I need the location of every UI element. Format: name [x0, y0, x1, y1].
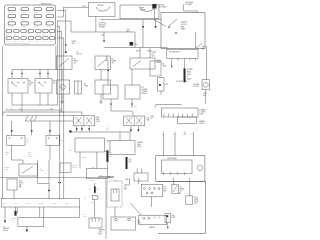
svg-text:MED HI: MED HI — [187, 79, 192, 81]
svg-text:S208: S208 — [72, 43, 75, 45]
svg-text:NOID: NOID — [99, 234, 102, 236]
svg-text:HTR: HTR — [26, 139, 29, 141]
svg-text:FUS: FUS — [21, 41, 24, 43]
svg-text:ORN: ORN — [61, 139, 64, 141]
svg-text:CLK FU: CLK FU — [8, 26, 13, 28]
svg-text:COIL: COIL — [124, 187, 127, 189]
svg-text:TERY: TERY — [138, 223, 142, 225]
svg-text:LINK: LINK — [11, 220, 14, 222]
svg-text:S201: S201 — [5, 153, 8, 155]
svg-text:SWITCH: SWITCH — [199, 123, 204, 125]
svg-text:LINK: LINK — [129, 161, 132, 163]
svg-text:BLOWER: BLOWER — [4, 167, 10, 169]
svg-text:CLK FU: CLK FU — [8, 12, 13, 14]
svg-text:IGNITION: IGNITION — [181, 22, 187, 24]
svg-text:RLY: RLY — [29, 85, 32, 87]
svg-text:CLK FU: CLK FU — [34, 12, 39, 14]
svg-text:MODULE: MODULE — [142, 93, 148, 95]
svg-text:PPL: PPL — [107, 128, 110, 130]
svg-text:FUS: FUS — [36, 34, 39, 36]
svg-text:FUSIBLE: FUSIBLE — [11, 218, 16, 220]
svg-text:S300: S300 — [165, 84, 168, 86]
svg-text:FUEL: FUEL — [194, 197, 198, 199]
svg-text:SOLE-: SOLE- — [99, 232, 103, 234]
svg-text:THERM: THERM — [112, 61, 117, 63]
svg-text:SEE: SEE — [28, 152, 31, 154]
svg-text:BRN: BRN — [124, 189, 127, 191]
svg-text:BLOWER SWITCH: BLOWER SWITCH — [169, 52, 181, 54]
svg-text:20 BRN: 20 BRN — [72, 41, 77, 43]
svg-text:CLK FU: CLK FU — [34, 26, 39, 28]
svg-text:FUS: FUS — [28, 34, 31, 36]
svg-text:BRN: BRN — [163, 191, 166, 193]
svg-text:2 RED: 2 RED — [65, 203, 69, 205]
svg-text:18 BLK: 18 BLK — [26, 203, 30, 205]
svg-text:BLOWER: BLOWER — [142, 89, 148, 91]
svg-text:FUS: FUS — [49, 34, 52, 36]
svg-text:8-CYL: 8-CYL — [163, 189, 167, 191]
svg-text:BULK-: BULK- — [96, 117, 100, 119]
svg-text:GRY: GRY — [15, 203, 18, 205]
svg-text:HTR: HTR — [53, 81, 56, 83]
svg-text:DIMMER: DIMMER — [199, 121, 204, 123]
svg-text:C100: C100 — [127, 29, 130, 31]
svg-text:BLOWER: BLOWER — [194, 84, 200, 86]
svg-text:OIL: OIL — [180, 187, 182, 189]
svg-text:250: 250 — [152, 54, 154, 56]
svg-text:PPL RED: PPL RED — [38, 203, 43, 205]
svg-text:S110: S110 — [94, 183, 97, 185]
svg-text:CONTROL: CONTROL — [142, 91, 149, 93]
svg-text:S207: S207 — [83, 6, 86, 8]
svg-text:HOT IN RUN: HOT IN RUN — [99, 23, 107, 25]
svg-text:GRN: GRN — [183, 134, 186, 136]
svg-text:REGU-: REGU- — [137, 144, 142, 146]
svg-text:250: 250 — [107, 130, 109, 132]
svg-text:PNK: PNK — [202, 46, 205, 48]
svg-text:GRY: GRY — [194, 203, 197, 205]
svg-text:MOTOR: MOTOR — [194, 86, 199, 88]
svg-text:PUMP: PUMP — [172, 217, 176, 219]
svg-text:RLY: RLY — [53, 83, 56, 85]
svg-text:CLK FU: CLK FU — [46, 19, 51, 21]
svg-text:JUNC: JUNC — [19, 181, 23, 183]
svg-text:TORS: TORS — [187, 74, 191, 76]
svg-text:20 BLK: 20 BLK — [5, 152, 9, 154]
svg-text:LINK: LINK — [96, 190, 99, 192]
svg-text:FUS: FUS — [43, 34, 46, 36]
svg-text:FUS: FUS — [43, 41, 46, 43]
svg-text:FUS: FUS — [21, 34, 24, 36]
svg-text:PRESS: PRESS — [180, 189, 185, 191]
svg-text:SWITCH: SWITCH — [4, 168, 9, 170]
svg-text:2 BLK: 2 BLK — [91, 201, 94, 203]
svg-text:BLK: BLK — [89, 189, 91, 191]
svg-text:FUS: FUS — [14, 34, 17, 36]
svg-text:BRN: BRN — [126, 179, 129, 181]
svg-text:CONN: CONN — [199, 114, 203, 116]
svg-text:FUS: FUS — [28, 41, 31, 43]
svg-text:C210: C210 — [50, 108, 53, 110]
svg-text:S115: S115 — [98, 196, 101, 198]
svg-text:C100: C100 — [100, 175, 103, 177]
svg-text:RESIS-: RESIS- — [187, 71, 192, 73]
svg-text:LO: LO — [187, 76, 189, 78]
svg-text:CTRL: CTRL — [26, 141, 30, 143]
svg-text:BLOCK: BLOCK — [28, 155, 32, 157]
svg-text:C100: C100 — [108, 176, 111, 178]
svg-text:COMP: COMP — [29, 83, 33, 85]
svg-text:FUS: FUS — [14, 41, 17, 43]
svg-text:SIG: SIG — [150, 118, 152, 120]
svg-text:SWITCH: SWITCH — [181, 24, 187, 26]
svg-text:FUS: FUS — [96, 188, 99, 190]
svg-text:SWITCH: SWITCH — [140, 9, 145, 11]
svg-text:BLOWER: BLOWER — [187, 69, 193, 71]
svg-text:FUS: FUS — [49, 41, 52, 43]
svg-text:RED: RED — [109, 156, 112, 158]
svg-text:RUN: RUN — [181, 26, 184, 28]
svg-text:TO FUSE: TO FUSE — [72, 164, 78, 166]
svg-text:FUS: FUS — [129, 159, 132, 161]
svg-text:CLK FU: CLK FU — [21, 26, 26, 28]
svg-text:WPR MTR: WPR MTR — [98, 5, 104, 7]
svg-text:COMP: COMP — [84, 86, 88, 88]
svg-text:CLK FU: CLK FU — [8, 19, 13, 21]
svg-text:BLK: BLK — [84, 198, 86, 200]
svg-text:CONN: CONN — [146, 120, 150, 122]
svg-text:12 BLK: 12 BLK — [82, 157, 86, 159]
svg-text:STEERING: STEERING — [199, 110, 206, 112]
svg-text:DIST: DIST — [163, 187, 166, 189]
svg-text:S135: S135 — [92, 167, 95, 169]
svg-text:FUSE BLOCK: FUSE BLOCK — [41, 3, 52, 5]
svg-text:PUMP: PUMP — [194, 199, 198, 201]
svg-text:PRESS: PRESS — [74, 61, 79, 63]
svg-text:BLK: BLK — [3, 203, 6, 205]
svg-text:RED: RED — [98, 198, 101, 200]
svg-text:12 GRY: 12 GRY — [52, 203, 57, 205]
svg-text:HI BLO: HI BLO — [157, 60, 161, 62]
svg-text:C220: C220 — [152, 56, 155, 58]
svg-text:CLK FU: CLK FU — [21, 19, 26, 21]
svg-text:BLOCK: BLOCK — [19, 183, 24, 185]
svg-text:MOTOR: MOTOR — [3, 230, 8, 232]
svg-text:ORN: ORN — [134, 106, 137, 108]
svg-text:CLK FU: CLK FU — [21, 12, 26, 14]
svg-text:CLK FU: CLK FU — [34, 19, 39, 21]
svg-text:WIPER: WIPER — [140, 8, 144, 10]
svg-text:C250: C250 — [204, 93, 207, 95]
svg-text:C200: C200 — [146, 118, 149, 120]
svg-text:BLU: BLU — [106, 57, 109, 59]
svg-text:COLUMN: COLUMN — [199, 112, 205, 114]
svg-text:FUSE: FUSE — [28, 153, 32, 155]
svg-text:FUS: FUS — [109, 152, 112, 154]
svg-text:TO: TO — [3, 226, 5, 228]
svg-text:CONN: CONN — [96, 121, 100, 123]
svg-text:GEN: GEN — [107, 141, 110, 143]
svg-text:FUS: FUS — [6, 41, 9, 43]
svg-text:HOT IN RUN: HOT IN RUN — [186, 2, 194, 4]
svg-text:FUEL: FUEL — [172, 215, 176, 217]
svg-text:COMP: COMP — [83, 216, 87, 218]
svg-text:12 BLK: 12 BLK — [69, 150, 73, 152]
svg-text:RED 12: RED 12 — [127, 31, 132, 33]
svg-text:BULB TEST: BULB TEST — [99, 24, 106, 26]
svg-text:ENG: ENG — [83, 214, 86, 216]
svg-text:CLK FU: CLK FU — [46, 26, 51, 28]
svg-text:CLUTCH: CLUTCH — [77, 54, 82, 56]
svg-text:G200: G200 — [134, 44, 138, 46]
svg-text:RED: RED — [19, 187, 22, 189]
svg-text:TURN: TURN — [150, 116, 154, 118]
svg-text:BLOCK: BLOCK — [72, 166, 76, 168]
svg-text:FUS: FUS — [36, 41, 39, 43]
svg-text:CLK FU: CLK FU — [46, 12, 51, 14]
svg-text:S209: S209 — [101, 35, 104, 37]
svg-text:2 RED: 2 RED — [90, 180, 94, 182]
svg-text:IGNITION: IGNITION — [124, 185, 130, 187]
svg-text:FUS: FUS — [6, 34, 9, 36]
